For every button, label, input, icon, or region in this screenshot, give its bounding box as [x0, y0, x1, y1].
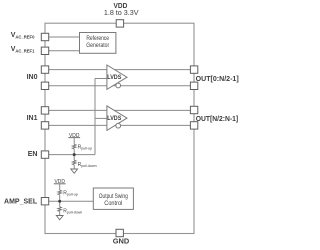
ground symbol (EN)	[71, 169, 78, 173]
wire IN1 complement row D to OUT pin	[49, 124, 191, 126]
svg-text:1.8 to 3.3V: 1.8 to 3.3V	[104, 10, 139, 17]
label VAC_REF0	[11, 32, 35, 39]
op-amp U2 LVDS buffer triangle	[107, 106, 127, 130]
svg-text:Reference: Reference	[86, 35, 109, 42]
pin VAC_REF1	[41, 47, 48, 54]
pin OUT1 complement	[190, 122, 197, 129]
wire Rpull-up to AMP_SEL junction	[59, 195, 61, 207]
inversion bubble U1	[116, 83, 121, 88]
svg-text:EN: EN	[28, 151, 38, 158]
pin VDD	[116, 20, 123, 27]
wire VAC_REF1 to reference generator	[49, 50, 80, 52]
reference generator block	[80, 33, 116, 54]
wire IN0 true input row A to OUT pin	[49, 69, 191, 71]
node EN junction	[73, 153, 76, 156]
pin IN0 complement	[41, 82, 48, 89]
VDD rail symbol for AMP_SEL resistors	[54, 179, 66, 190]
pin EN	[41, 151, 48, 158]
pin IN0 true	[41, 66, 48, 73]
pin IN1 true	[41, 107, 48, 114]
ground symbol (AMP_SEL)	[56, 216, 63, 220]
output swing control block	[93, 188, 133, 209]
svg-text:OUT[N/2:N-1]: OUT[N/2:N-1]	[196, 116, 239, 123]
label VDD supply	[114, 3, 128, 10]
pin OUT1 true	[190, 106, 197, 113]
pin GND	[116, 229, 123, 236]
svg-text:GND: GND	[113, 238, 130, 245]
chip body outline	[45, 23, 194, 233]
resistor Rpull-up (EN)	[72, 144, 92, 150]
wire Rpull-up to EN junction	[73, 149, 75, 160]
wire VAC_REF0 to reference generator	[49, 36, 80, 38]
svg-text:Generator: Generator	[86, 42, 109, 49]
wire Rpull-down to ground (AMP_SEL)	[59, 212, 61, 216]
wire enable branch to buffer U1	[95, 78, 107, 80]
wire IN0 complement row B to OUT pin	[49, 85, 191, 87]
label OUT[0:N/2-1]	[196, 76, 239, 83]
wire enable branch to buffer U2	[95, 117, 107, 119]
inversion bubble U2	[116, 123, 121, 128]
svg-text:Control: Control	[104, 200, 122, 207]
label EN	[28, 151, 38, 158]
wire Rpull-down to ground (EN)	[73, 165, 75, 169]
wire EN horizontal	[49, 154, 95, 156]
svg-text:OUT[0:N/2-1]: OUT[0:N/2-1]	[196, 76, 239, 83]
op-amp U1 LVDS buffer triangle	[107, 65, 127, 89]
svg-text:IN1: IN1	[27, 115, 38, 122]
label AMP_SEL	[4, 199, 38, 206]
svg-text:LVDS: LVDS	[107, 115, 122, 122]
pin AMP_SEL	[41, 198, 48, 205]
pin OUT0 complement	[190, 82, 197, 89]
label IN1	[27, 115, 38, 122]
label OUT[N/2:N-1]	[196, 116, 239, 123]
VDD rail symbol for EN resistors	[68, 133, 80, 145]
resistor Rpull-up (AMP_SEL)	[58, 190, 78, 197]
node AMP_SEL junction	[58, 200, 61, 203]
label GND	[113, 238, 130, 245]
svg-text:AMP_SEL: AMP_SEL	[4, 199, 38, 206]
wire IN1 true input row C to OUT pin	[49, 109, 191, 111]
pin VAC_REF0	[41, 33, 48, 40]
svg-text:LVDS: LVDS	[107, 74, 122, 81]
pin IN1 complement	[41, 122, 48, 129]
label VAC_REF1	[11, 46, 35, 53]
wire AMP_SEL to output swing control	[49, 200, 94, 202]
label supply range 1.8 to 3.3V	[104, 10, 139, 17]
pin OUT0 true	[190, 66, 197, 73]
wire enable vertical riser	[94, 79, 96, 155]
svg-text:IN0: IN0	[27, 74, 38, 81]
resistor Rpull-down (AMP_SEL)	[58, 207, 82, 215]
label IN0	[27, 74, 38, 81]
svg-text:VDD: VDD	[114, 3, 128, 10]
resistor Rpull-down (EN)	[72, 160, 96, 168]
